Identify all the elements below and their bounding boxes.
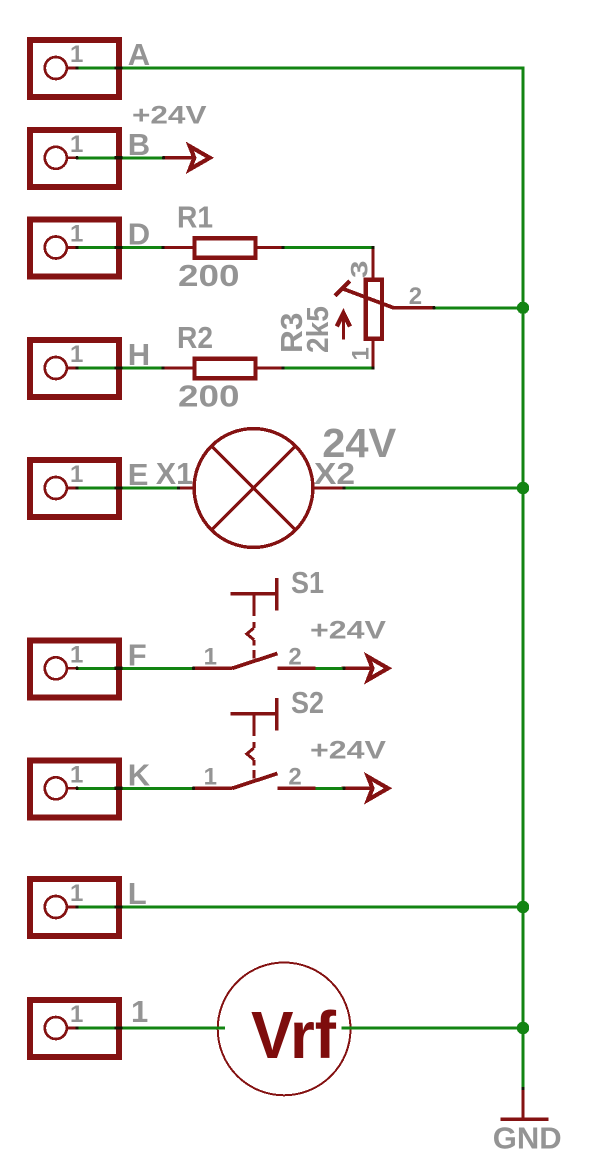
wire S2 to arrow [316, 787, 345, 790]
junction dot R3 wiper [517, 302, 529, 314]
svg-text:K: K [128, 757, 151, 792]
svg-text:E: E [128, 457, 149, 492]
wire net F left [77, 667, 194, 670]
wire S1 to arrow [316, 667, 345, 670]
wire net H left [77, 367, 163, 370]
svg-text:L: L [128, 876, 147, 911]
wire net K left [77, 787, 194, 790]
svg-text:1: 1 [70, 641, 83, 668]
svg-text:1: 1 [70, 1001, 83, 1028]
switch S2 [193, 698, 315, 788]
svg-text:1: 1 [70, 461, 83, 488]
svg-text:1: 1 [348, 347, 375, 360]
svg-text:+24V: +24V [132, 101, 207, 129]
wire lamp X2 to bus [344, 487, 523, 490]
connector B [30, 130, 119, 187]
connector 1 (bottom) [30, 1000, 119, 1057]
svg-text:S2: S2 [291, 685, 324, 720]
connector D [30, 220, 119, 277]
svg-text:F: F [128, 637, 147, 672]
supply arrow +24V at B [163, 146, 210, 169]
svg-text:S1: S1 [291, 565, 324, 600]
svg-text:Vrf: Vrf [251, 998, 337, 1073]
wire Vrf to bus [342, 1027, 523, 1030]
connector K [30, 760, 119, 817]
resistor R2 [163, 359, 283, 379]
wire net L [77, 906, 523, 909]
voltmeter Vrf [218, 963, 351, 1096]
ground GND [501, 1088, 549, 1119]
wire net A horizontal [77, 67, 523, 70]
wire R1 to R3 [283, 246, 373, 249]
connector E [30, 460, 119, 517]
svg-text:X1: X1 [156, 456, 193, 491]
supply arrow +24V at S1 [342, 657, 389, 680]
svg-text:D: D [128, 217, 150, 252]
wire net 1 left [77, 1027, 225, 1030]
wire net A vertical bus [522, 67, 525, 1089]
svg-text:1: 1 [70, 221, 83, 248]
resistor R1 [163, 238, 283, 258]
junction dot Vrf [517, 1022, 529, 1034]
svg-text:R2: R2 [177, 320, 213, 355]
svg-text:A: A [128, 37, 150, 72]
svg-text:+24V: +24V [310, 617, 386, 645]
connector A [30, 40, 119, 97]
svg-text:1: 1 [70, 41, 83, 68]
svg-text:GND: GND [493, 1121, 562, 1156]
wire net B [77, 156, 164, 159]
svg-text:1: 1 [70, 761, 83, 788]
svg-text:1: 1 [70, 131, 83, 158]
svg-text:1: 1 [70, 341, 83, 368]
connector F [30, 640, 119, 697]
svg-text:1: 1 [131, 994, 148, 1029]
junction dot L [517, 901, 529, 913]
supply arrow +24V at S2 [342, 777, 389, 800]
svg-text:1: 1 [70, 880, 83, 907]
svg-text:2: 2 [288, 644, 301, 671]
switch S1 [193, 578, 315, 668]
svg-text:200: 200 [178, 378, 240, 413]
svg-text:3: 3 [347, 261, 374, 279]
svg-text:R1: R1 [177, 200, 213, 235]
svg-text:H: H [128, 337, 150, 372]
svg-text:1: 1 [204, 763, 217, 790]
wire R3 wiper to bus [434, 306, 523, 309]
svg-text:200: 200 [178, 258, 240, 293]
potentiometer R3 [335, 248, 434, 369]
svg-text:2: 2 [409, 283, 422, 310]
lamp 24V [179, 429, 344, 548]
wire net D left [77, 246, 163, 249]
junction dot lamp [517, 482, 529, 494]
svg-text:+24V: +24V [310, 737, 386, 765]
svg-text:2k5: 2k5 [300, 306, 335, 353]
svg-text:24V: 24V [322, 420, 397, 466]
connector L [30, 879, 119, 936]
wire R2 to R3 [283, 367, 373, 370]
svg-text:B: B [128, 127, 150, 162]
connector H [30, 340, 119, 397]
wire net E left [77, 487, 179, 490]
R3 adjust arrow [337, 313, 350, 339]
pin contact dots [75, 66, 524, 1090]
svg-text:1: 1 [204, 643, 217, 670]
svg-text:2: 2 [288, 764, 301, 791]
